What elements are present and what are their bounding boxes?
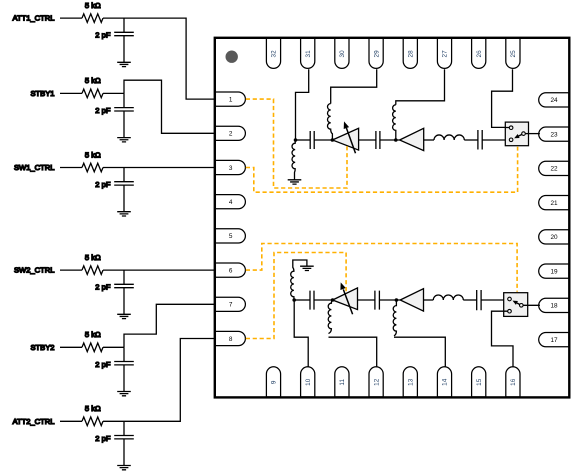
svg-text:10: 10 — [305, 378, 312, 386]
wire C11 to node J6 — [379, 299, 400, 301]
wire U3 to L8 — [424, 299, 434, 301]
wire SW1_CTRL to node — [103, 167, 124, 169]
node J2 junction dot — [331, 138, 335, 142]
resistor R5 5 kOhm — [82, 343, 103, 352]
ground for SW1_CTRL — [117, 212, 131, 216]
capacitor C11 (bottom chain interstage) — [375, 291, 380, 310]
resistor R4 5 kOhm — [82, 266, 103, 275]
svg-text:ATT2_CTRL: ATT2_CTRL — [12, 417, 54, 426]
svg-text:14: 14 — [442, 378, 449, 386]
pin 20 — [539, 230, 569, 244]
node J6 junction dot — [395, 298, 399, 302]
capacitor C10 (bottom chain input blocking) — [310, 291, 314, 310]
wire L3 to pin 27 — [396, 69, 445, 105]
svg-text:5 kΩ: 5 kΩ — [85, 76, 101, 85]
pin 9 — [266, 367, 280, 397]
capacitor C9 (top chain output) — [478, 130, 482, 150]
wire control pin 8 to attenuator A2 (dashed) — [246, 253, 346, 339]
svg-text:7: 7 — [229, 302, 233, 309]
wire C9 to switch S1 — [482, 139, 509, 141]
svg-text:2: 2 — [229, 131, 233, 138]
ground for SW2_CTRL — [117, 314, 131, 318]
switch S1 box — [505, 122, 528, 146]
wire C10 to node J5 — [314, 299, 333, 301]
capacitor C2 2 pF — [114, 93, 134, 137]
svg-text:25: 25 — [510, 50, 517, 58]
svg-text:27: 27 — [442, 50, 449, 58]
capacitor C6 2 pF — [114, 421, 134, 465]
wire L7 to pin 14 — [394, 337, 445, 367]
attenuator A2 arrow — [343, 289, 352, 314]
svg-text:9: 9 — [271, 380, 278, 384]
pin 26 — [472, 38, 486, 68]
pin 15 — [472, 367, 486, 397]
svg-text:31: 31 — [305, 50, 312, 58]
wire SW1_CTRL to pin 3 — [124, 167, 216, 169]
resistor R3 5 kOhm — [82, 163, 103, 172]
svg-text:17: 17 — [550, 337, 558, 344]
svg-text:SW1_CTRL: SW1_CTRL — [14, 163, 55, 172]
svg-text:2 pF: 2 pF — [95, 106, 111, 115]
ground for STBY1 — [117, 138, 131, 142]
wire ATT1_CTRL to pin 1 — [124, 18, 216, 99]
pin 7 — [215, 297, 245, 311]
capacitor C3 2 pF — [114, 168, 134, 212]
pin 14 — [437, 367, 451, 397]
capacitor C7 (top chain input blocking) — [310, 131, 314, 149]
ground for ATT1_CTRL — [117, 62, 131, 66]
switch S2 arm — [517, 303, 520, 305]
attenuator A2 body — [333, 288, 358, 310]
svg-text:18: 18 — [550, 303, 558, 310]
pin 8 — [215, 331, 245, 345]
inductor L1 shunt (top chain) — [292, 140, 296, 180]
svg-text:1: 1 — [229, 96, 233, 103]
pin 2 — [215, 126, 245, 140]
svg-text:19: 19 — [550, 268, 558, 275]
wire A2 to C11 — [358, 299, 375, 301]
svg-text:32: 32 — [271, 50, 278, 58]
wire C12 to switch S2 — [481, 299, 508, 301]
svg-text:8: 8 — [229, 336, 233, 343]
wire STBY2 input — [60, 346, 82, 348]
ground for STBY2 — [117, 392, 131, 396]
switch S1 arm — [518, 134, 522, 136]
resistor R6 5 kOhm — [82, 417, 103, 426]
svg-text:STBY2: STBY2 — [30, 343, 54, 352]
svg-text:STBY1: STBY1 — [30, 89, 54, 98]
svg-text:13: 13 — [408, 378, 415, 386]
svg-text:5 kΩ: 5 kΩ — [85, 330, 101, 339]
wire STBY1 to pin 2 — [124, 80, 216, 133]
wire L8 to C12 — [463, 299, 476, 301]
node J5 junction dot — [331, 298, 335, 302]
ground (bottom chain shunt inductor) — [300, 266, 314, 270]
wire ATT1_CTRL input — [60, 17, 82, 19]
wire SW2_CTRL input — [60, 269, 82, 271]
switch S2 terminals — [508, 297, 512, 301]
svg-text:16: 16 — [510, 378, 517, 386]
wire L4 to C9 — [464, 139, 478, 141]
svg-text:15: 15 — [476, 378, 483, 386]
resistor R2 5 kOhm — [82, 89, 103, 98]
svg-text:2 pF: 2 pF — [95, 360, 111, 369]
svg-text:4: 4 — [229, 199, 233, 206]
wire node J1 to pin 31 — [296, 69, 309, 140]
pin 10 — [301, 367, 315, 397]
amplifier U2 (top chain) — [400, 128, 424, 150]
wire SW1_CTRL input — [60, 167, 82, 169]
wire ATT2_CTRL to pin 8 — [124, 339, 216, 422]
pin 5 — [215, 229, 245, 243]
svg-text:26: 26 — [476, 50, 483, 58]
svg-text:6: 6 — [229, 267, 233, 274]
svg-text:28: 28 — [408, 50, 415, 58]
node J3 junction dot — [394, 138, 398, 142]
pin 27 — [437, 38, 451, 68]
switch S2 pole wire to pin 18 — [523, 304, 540, 306]
node J1 junction dot — [294, 138, 298, 142]
svg-text:20: 20 — [550, 234, 558, 241]
pin 21 — [539, 196, 569, 210]
wire C8 to node J3 — [380, 139, 400, 141]
pin 6 — [215, 263, 245, 277]
svg-text:3: 3 — [229, 165, 233, 172]
svg-text:29: 29 — [373, 50, 380, 58]
pin 1 — [215, 92, 245, 106]
wire A1 to C8 — [359, 139, 376, 141]
wire C7 to node J2 — [314, 139, 332, 141]
svg-text:2 pF: 2 pF — [95, 434, 111, 443]
resistor R1 5 kOhm — [82, 14, 103, 23]
wire SW2_CTRL to pin 6 — [124, 269, 216, 271]
svg-text:2 pF: 2 pF — [95, 31, 111, 40]
ground (top chain shunt inductor) — [288, 180, 302, 184]
pin 19 — [539, 264, 569, 278]
attenuator A1 body — [332, 128, 358, 150]
pin 18 — [539, 298, 569, 312]
svg-text:5 kΩ: 5 kΩ — [85, 150, 101, 159]
svg-text:5 kΩ: 5 kΩ — [85, 404, 101, 413]
wire STBY1 input — [60, 92, 82, 94]
switch S1 terminals — [509, 126, 513, 130]
pin 17 — [539, 333, 569, 347]
svg-text:24: 24 — [550, 97, 558, 104]
svg-text:5: 5 — [229, 233, 233, 240]
switch S1 pole wire to pin 23 — [525, 133, 540, 135]
pin 23 — [539, 127, 569, 141]
wire control pin 1 to attenuator A1 (dashed) — [246, 99, 347, 188]
pin 11 — [335, 367, 349, 397]
pin 1 indicator dot — [226, 51, 238, 63]
svg-text:30: 30 — [339, 50, 346, 58]
pin 24 — [539, 93, 569, 107]
wire ATT1_CTRL to node — [103, 17, 124, 19]
wire switch S2 throw to pin 16 — [492, 311, 514, 367]
pin 16 — [506, 367, 520, 397]
attenuator A1 arrow — [346, 128, 355, 153]
amplifier U3 (bottom chain) — [400, 289, 423, 311]
pin 31 — [301, 38, 315, 68]
ground for ATT2_CTRL — [117, 466, 131, 470]
wire node J4 to pin 10 — [294, 300, 308, 367]
capacitor C12 (bottom chain output) — [477, 290, 481, 310]
svg-text:11: 11 — [339, 379, 346, 386]
svg-text:5 kΩ: 5 kΩ — [85, 253, 101, 262]
pin 12 — [369, 367, 383, 397]
wire SW2_CTRL to node — [103, 269, 124, 271]
wire L2 to pin 29 — [331, 69, 377, 103]
svg-text:22: 22 — [550, 166, 558, 173]
svg-text:ATT1_CTRL: ATT1_CTRL — [12, 14, 54, 23]
inductor L2 (top chain, to pin 29) — [328, 104, 333, 140]
svg-text:23: 23 — [550, 131, 558, 138]
switch S2 box — [504, 293, 528, 317]
wire switch S1 throw to pin 25 — [492, 69, 513, 127]
wire STBY2 to pin 7 — [124, 304, 216, 347]
svg-text:SW2_CTRL: SW2_CTRL — [14, 266, 55, 275]
inductor L5 shunt (bottom chain) — [291, 260, 307, 300]
wire J1 to C7 — [296, 139, 311, 141]
pin 3 — [215, 160, 245, 174]
svg-text:2 pF: 2 pF — [95, 283, 111, 292]
IC package body U1 — [215, 38, 570, 398]
capacitor C4 2 pF — [114, 270, 134, 314]
capacitor C8 (top chain interstage) — [376, 131, 380, 149]
capacitor C5 2 pF — [114, 347, 134, 391]
pin 29 — [369, 38, 383, 68]
svg-text:2 pF: 2 pF — [95, 180, 111, 189]
pin 13 — [403, 367, 417, 397]
svg-text:12: 12 — [373, 378, 380, 386]
wire J4 to C10 — [294, 299, 310, 301]
wire ATT2_CTRL input — [60, 420, 82, 422]
wire control pin 3 to switch S1 (dashed) — [246, 147, 518, 192]
wire STBY2 to node — [103, 346, 124, 348]
inductor L4 series (top chain) — [434, 135, 464, 140]
pin 28 — [403, 38, 417, 68]
pin 22 — [539, 161, 569, 175]
pin 32 — [266, 38, 280, 68]
inductor L7 (bottom chain, to pin 14) — [393, 300, 396, 336]
wire STBY1 to node — [103, 92, 124, 94]
pin 30 — [335, 38, 349, 68]
pin 4 — [215, 195, 245, 209]
inductor L3 (top chain, to pin 27) — [393, 105, 396, 140]
svg-text:5 kΩ: 5 kΩ — [85, 1, 101, 10]
wire U2 to L4 — [424, 139, 434, 141]
wire control pin 6 to switch S2 (dashed) — [246, 244, 517, 292]
wire L6 to pin 12 — [329, 337, 377, 367]
svg-text:21: 21 — [550, 200, 558, 207]
inductor L8 series (bottom chain) — [433, 295, 463, 300]
node J4 junction dot — [292, 298, 296, 302]
pin 25 — [506, 38, 520, 68]
inductor L6 (bottom chain, to pin 12) — [328, 300, 332, 334]
capacitor C1 2 pF — [114, 18, 134, 62]
wire ATT2_CTRL to node — [103, 420, 124, 422]
